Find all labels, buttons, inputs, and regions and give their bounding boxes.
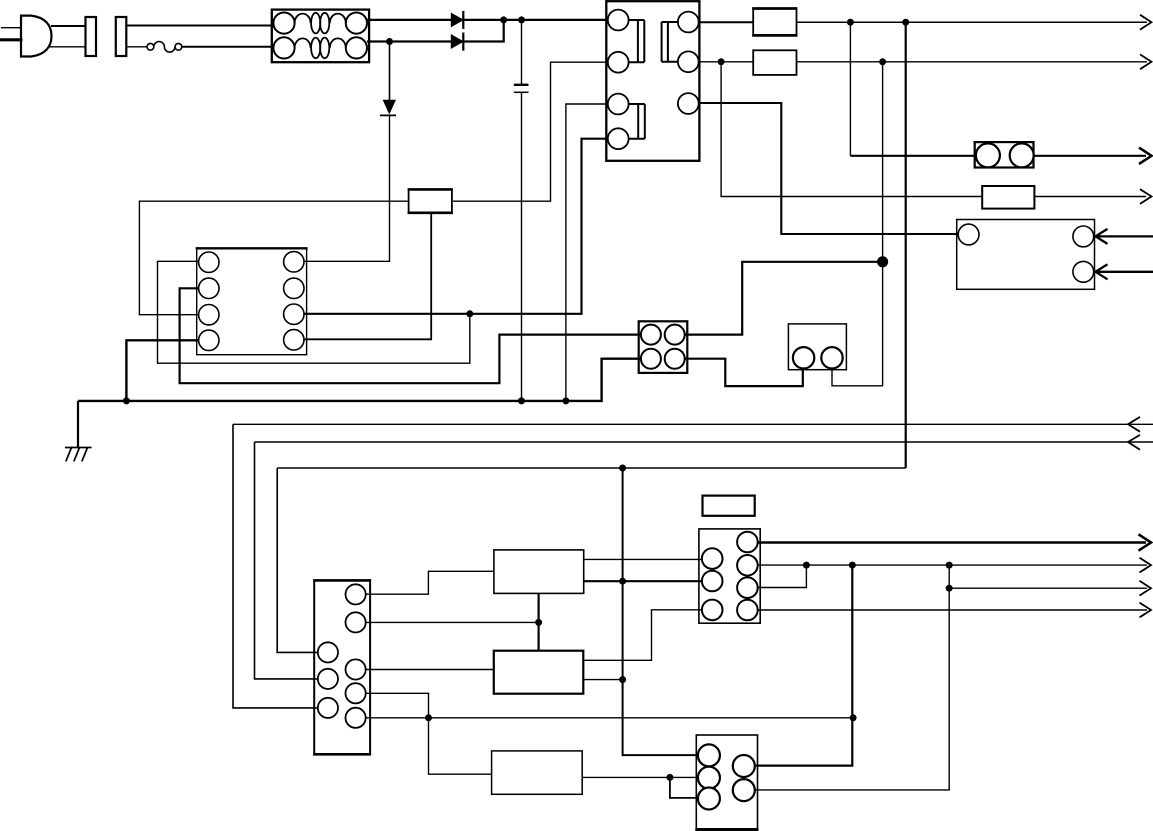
- node dot M2 out2: [619, 676, 626, 683]
- node dot R4-R5 join: [425, 714, 432, 721]
- node dot CN2 R3: [803, 562, 810, 569]
- wire CN1 pin R4 to module M3: [350, 693, 492, 774]
- diode D2: [451, 35, 463, 48]
- CN1 pins: [318, 584, 366, 728]
- wire node to capacitor C1: [521, 20, 523, 85]
- wire transformer pin2b node down: [721, 62, 982, 197]
- wire M3 out to CN3: [582, 776, 703, 778]
- thermistor pins: [793, 347, 843, 368]
- IC U1 box: [197, 248, 307, 354]
- connector CN5 box (2x2): [639, 321, 688, 373]
- wire transformer sec2 to R2: [694, 61, 753, 63]
- wire IC pin4 to ground bus: [126, 340, 203, 401]
- vertical bus from line C to CN3: [623, 468, 703, 755]
- wire D2 cathode up to node: [463, 20, 503, 42]
- wire M1 out2 to CN2 thick: [584, 580, 706, 582]
- wire node to arrow line 588: [949, 587, 1147, 589]
- CN5 pins: [641, 325, 685, 369]
- wire line A from corner to arrow: [233, 423, 1153, 425]
- IC U1 pins: [199, 252, 304, 351]
- wire node down to D3: [389, 42, 391, 101]
- filter FL1 terminals: [273, 13, 367, 59]
- module M1 box: [494, 550, 584, 594]
- output arrow 7: [1140, 581, 1152, 596]
- node dot V2 top: [902, 19, 909, 26]
- wire CN1 pin R5 long: [350, 717, 853, 719]
- wire connector to fuse: [126, 46, 147, 48]
- connector CN3 box (bottom): [696, 735, 757, 830]
- output arrow 2: [1140, 54, 1152, 69]
- node dot line C bus: [619, 465, 626, 472]
- wire line C down to CN1: [277, 468, 322, 652]
- resistor R3 box: [982, 186, 1034, 209]
- module M2 box: [494, 651, 584, 694]
- node dot V1 top: [847, 19, 854, 26]
- wire D3 to IC U1 pin5: [299, 115, 390, 261]
- node dot D2-D1 join: [500, 16, 507, 23]
- wire CN1 pin R2 to M1 bottom node: [350, 621, 539, 623]
- transformer winding primary bottom: [629, 104, 645, 139]
- node dot M1 out2: [619, 578, 626, 585]
- node dot 949 bottom: [946, 585, 953, 592]
- wire transformer pin3 to ground bus: [566, 104, 612, 401]
- transformer winding secondary: [662, 22, 678, 62]
- output arrow 8: [1140, 603, 1152, 618]
- input arrow line B: [1128, 435, 1140, 450]
- ground stem: [77, 401, 79, 448]
- connector CN1 box (8-pin, bottom left): [314, 580, 370, 754]
- wire CN1 pin R1 to module M1: [350, 571, 494, 594]
- output arrow 6: [1140, 558, 1152, 573]
- CN2 pins: [702, 532, 758, 621]
- plug prong top: [1, 27, 21, 29]
- node dot V3 top: [879, 58, 886, 65]
- connector J1 blade: [86, 17, 97, 56]
- node dot cap branch: [518, 16, 525, 23]
- wire D1 cathode to transformer pin1: [463, 19, 612, 21]
- wire CN5 pin4 to thermistor: [683, 359, 803, 386]
- wire filter to diode D2: [367, 40, 451, 42]
- node dot D3 branch: [386, 38, 393, 45]
- chassis ground: [65, 448, 92, 462]
- jumper CN3 L2-L3: [670, 777, 703, 798]
- wire CN4 to output arrow 3: [1034, 155, 1147, 157]
- wire M2 out2 to vertical bus: [583, 679, 622, 681]
- input arrow line A: [1128, 417, 1140, 432]
- fuse F1: [147, 42, 182, 53]
- wire node V1 down to CN4 line: [849, 22, 851, 156]
- transformer T1 pins: [608, 10, 699, 150]
- wire M1 out1 to CN2: [584, 558, 706, 560]
- label box above CN2: [703, 496, 755, 516]
- output arrow 3 thick: [1139, 148, 1152, 164]
- node dot 852: [849, 562, 856, 569]
- node dot IC pin7 net: [466, 310, 473, 317]
- transformer T1 box: [606, 1, 699, 161]
- filter coil bottom: [295, 38, 346, 59]
- CN3 pins: [698, 744, 755, 809]
- module M3 box: [492, 751, 583, 794]
- wire capacitor C1 to ground bus: [521, 92, 523, 401]
- wire R2 to output arrow 2: [797, 61, 1148, 63]
- wire M2 out1 to CN2: [583, 610, 706, 661]
- connector J2 blade: [116, 17, 127, 56]
- ground bus: [78, 359, 643, 401]
- node dot pin2b: [718, 58, 725, 65]
- node dot ground bus cap: [518, 397, 525, 404]
- sensor box pins: [958, 224, 1094, 282]
- wire to CN4: [850, 155, 974, 157]
- transformer winding primary top: [629, 20, 645, 62]
- wire IC pin8 riser: [158, 261, 470, 363]
- wire line B down to CN1: [255, 442, 323, 679]
- wire node V3 down to thermistor: [832, 62, 883, 386]
- thermistor box (2-circle bottom): [788, 324, 846, 370]
- wire node V2 down full height: [905, 22, 907, 468]
- wire plug to connector top: [51, 25, 86, 27]
- wire IC pin7 riser thick: [180, 288, 643, 383]
- node dot ground bus IC: [123, 397, 130, 404]
- output arrow 5 thick: [1139, 534, 1152, 550]
- wire R1 to output arrow 1: [797, 21, 1148, 23]
- diode D3 (down): [383, 100, 395, 113]
- wire transformer sec1 to R1: [694, 21, 753, 23]
- resistor R1 box: [753, 9, 796, 36]
- input arrow sensor 2: [1096, 264, 1153, 279]
- wire CN2 R4 to arrow: [742, 609, 1147, 611]
- node dot big V3 mid: [877, 256, 888, 267]
- wire CN2 R2 to arrow: [742, 564, 1147, 566]
- resistor R4 box: [409, 189, 452, 212]
- capacitor C1: [514, 84, 529, 86]
- node dot 949 top: [946, 562, 953, 569]
- AC plug P1: [21, 16, 52, 57]
- wire transformer sec3 to sensor box: [694, 103, 960, 234]
- node dot M1 bottom: [535, 619, 542, 626]
- output arrow 1: [1140, 15, 1152, 30]
- wire CN1 pin R3 to module M2: [350, 669, 494, 671]
- wire M1 bottom to M2 top: [537, 593, 539, 650]
- input arrow sensor 1: [1096, 229, 1153, 244]
- line filter FL1 box: [272, 10, 369, 63]
- wire CN2 R1 to arrow thick: [742, 541, 1146, 543]
- wire transformer pin4 to IC pin7 net: [299, 139, 612, 314]
- node dot M3 out: [666, 774, 673, 781]
- wire CN5 pin2 riser: [683, 262, 883, 335]
- wire R4 bottom to IC pin6: [299, 213, 431, 339]
- wire CN2 R3 riser: [742, 565, 806, 587]
- filter coil top: [295, 13, 346, 34]
- node dot R5 end: [850, 714, 857, 721]
- wire transformer pin2 to R4: [453, 62, 612, 201]
- resistor R2 box: [753, 50, 796, 75]
- node dot ground bus pin3: [562, 397, 569, 404]
- wire filter to diode D1: [367, 19, 451, 21]
- wire fuse to filter: [182, 46, 274, 48]
- output arrow 4: [1140, 189, 1152, 204]
- wire line A down to CN1: [233, 424, 322, 708]
- wire line C: [277, 467, 906, 469]
- wire R4 to corner left: [139, 201, 407, 315]
- wire plug to connector bottom: [48, 46, 86, 48]
- CN4 pins: [976, 143, 1034, 167]
- wire node down to CN3 R1: [738, 565, 852, 766]
- connector CN2 box (7-pin): [699, 529, 760, 623]
- remote sensor box: [957, 220, 1095, 290]
- wire node down to CN3 R2: [738, 565, 949, 790]
- wire connector to filter top: [126, 25, 274, 27]
- diode D1: [451, 13, 463, 26]
- connector CN4 box (2-circle inline): [975, 142, 1034, 167]
- plug prong bottom: [0, 38, 23, 41]
- wire line B from corner to arrow: [255, 441, 1153, 443]
- wire R3 to output arrow 4: [1034, 196, 1146, 198]
